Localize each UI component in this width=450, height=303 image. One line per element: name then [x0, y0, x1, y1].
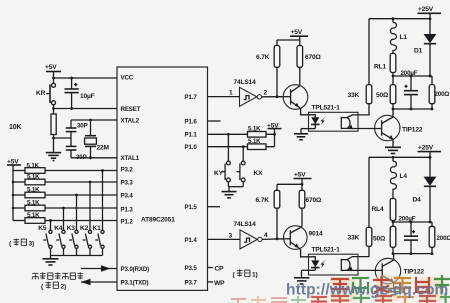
+5V supply (reset circuit) [45, 64, 61, 78]
wire: P1.1 net [208, 133, 275, 135]
svg-text:4: 4 [264, 232, 268, 239]
wire: oscillator ground link [54, 137, 72, 139]
svg-text:P1.0: P1.0 [185, 144, 198, 151]
MCU U1 AT89C2051 [117, 67, 208, 290]
wire: P1.0 net [208, 146, 275, 148]
wire: output node line A [393, 75, 432, 77]
optocoupler U2 TPL521-1 (channel A) [309, 105, 359, 132]
resistor 6.7K (channel A) [256, 40, 280, 97]
svg-text:+25V: +25V [418, 6, 434, 13]
wire: K2 drop [89, 181, 92, 231]
svg-text:200µF: 200µF [401, 70, 418, 77]
svg-text:RESET: RESET [121, 106, 141, 113]
svg-text:50Ω: 50Ω [373, 236, 386, 243]
wire: inverter out to base B [262, 238, 284, 241]
wire: collector rail B [392, 252, 434, 255]
crystal Y1 22M [85, 120, 110, 158]
resistor 33K (channel A) [348, 19, 372, 104]
inductor L1 [390, 19, 407, 54]
switch K3 [67, 225, 78, 256]
node: 6.7K base junction B [276, 237, 279, 240]
switch K5 [38, 225, 52, 256]
ground (TIP122 B emitter) [386, 289, 402, 295]
+5V supply (channel A driver) [277, 29, 308, 40]
node: L1 rail tap [392, 17, 395, 20]
node: L4 rail tap [392, 156, 395, 159]
resistor R-K1 5.1K [13, 162, 117, 173]
svg-text:+25V: +25V [418, 145, 434, 152]
svg-text:KY: KY [214, 170, 224, 177]
svg-text:200Ω: 200Ω [435, 91, 450, 98]
resistor R-K5 5.1K [13, 212, 117, 223]
svg-text:200µF: 200µF [399, 215, 416, 222]
watermark colored glyphs row 2 (clipped at bottom) [232, 294, 450, 303]
svg-text:30P: 30P [77, 123, 88, 130]
svg-text:3): 3) [29, 241, 35, 248]
svg-text:6.7K: 6.7K [256, 54, 270, 61]
wire: 33K to opto collector A [358, 104, 369, 115]
wire: pull-up rail [12, 171, 14, 221]
svg-text:200Ω: 200Ω [437, 235, 450, 242]
svg-text:P1.2: P1.2 [121, 218, 134, 225]
+25V supply (channel A) [418, 6, 442, 19]
resistor 5.1K (P1.1 pull-up) [248, 126, 267, 138]
opto phototransistor B [341, 257, 358, 272]
resistor 10K [9, 109, 56, 139]
wire: XTAL1 line [71, 157, 117, 159]
svg-text:+5V: +5V [45, 64, 57, 71]
svg-text:5.1K: 5.1K [248, 126, 261, 133]
svg-text:P3.3: P3.3 [121, 179, 134, 186]
+25V supply (channel B) [418, 145, 442, 158]
svg-text:P1.3: P1.3 [121, 206, 134, 213]
wire: Q1 emitter to opto LED [299, 107, 309, 115]
label: host control signal [32, 272, 83, 279]
watermark colored glyphs row 1 [332, 276, 449, 292]
node: capacitor top tap [70, 77, 73, 80]
svg-text:5.1K: 5.1K [27, 200, 40, 207]
svg-text:5.1K: 5.1K [27, 187, 40, 194]
wire: +25V rail B [369, 156, 430, 158]
+5V supply (channel B driver) [277, 172, 312, 186]
resistor RL1 [374, 53, 396, 76]
svg-text:D1: D1 [414, 48, 423, 55]
svg-text:WP: WP [214, 280, 225, 287]
wire: P1.7 to inverter [208, 96, 240, 98]
transistor Q2 9014 [284, 226, 324, 250]
watermark background patches [330, 275, 444, 301]
switch K1 [93, 225, 105, 256]
svg-text:http://www.gz-dq.com: http://www.gz-dq.com [286, 282, 448, 299]
resistor R-K4 5.1K [12, 200, 117, 211]
svg-text:9014: 9014 [309, 230, 324, 237]
inductor L4 [390, 157, 407, 191]
wire: P3.7 stub [208, 281, 214, 283]
wire: opto emitter to TIP122 base B [358, 269, 375, 271]
svg-text:22M: 22M [97, 145, 110, 152]
svg-text:10µF: 10µF [80, 93, 95, 100]
node: 10K bottom junction [52, 137, 55, 140]
opto LED B [302, 257, 320, 271]
svg-text:K1: K1 [93, 225, 102, 232]
svg-text:D4: D4 [413, 197, 422, 204]
wire: RXD signal with arrow [81, 265, 117, 272]
resistor 5.1K (P1.0 pull-up) [248, 138, 267, 150]
node: RL1 bottom junction [392, 75, 395, 78]
ground (TIP122 A emitter) [385, 147, 401, 153]
svg-text:33K: 33K [348, 235, 360, 242]
svg-text:TIP122: TIP122 [402, 127, 423, 134]
svg-text:AT89C2051: AT89C2051 [141, 217, 175, 224]
svg-text:1): 1) [252, 272, 258, 279]
svg-text:K2: K2 [80, 225, 89, 232]
svg-text:P1.5: P1.5 [185, 204, 198, 211]
svg-text:L4: L4 [400, 173, 408, 180]
node: VCC rail junction [52, 77, 55, 80]
+5V supply (KY/KX pull-ups) [267, 122, 282, 146]
wire: K4 drop [62, 207, 65, 231]
node: KR bottom junction [52, 107, 55, 110]
svg-text:5.1K: 5.1K [248, 138, 261, 145]
label (mode 3) [9, 239, 34, 248]
wire: P3.5 stub [208, 267, 214, 269]
transistor TIP122 (channel B) [375, 254, 424, 289]
transistor Q1 (channel A driver) [283, 85, 308, 110]
svg-text:670Ω: 670Ω [306, 197, 323, 204]
svg-text:P3.5: P3.5 [185, 265, 198, 272]
svg-text:33K: 33K [348, 92, 360, 99]
capacitor C1 10uF [65, 78, 95, 109]
svg-text:5.1K: 5.1K [27, 174, 40, 181]
capacitor C3 30P [66, 138, 87, 161]
svg-text:K3: K3 [67, 225, 76, 232]
resistor RL4 [372, 191, 396, 222]
svg-text:50Ω: 50Ω [376, 92, 389, 99]
resistor 33K (channel B) [348, 157, 372, 246]
resistor 50R (channel A) [376, 76, 396, 109]
wire: +25V rail A [369, 18, 430, 20]
inverter U3B 74LS14 [234, 221, 263, 249]
svg-text:P3.7: P3.7 [185, 279, 198, 286]
svg-text:CP: CP [215, 265, 225, 272]
ground (opto LED B) [294, 270, 310, 284]
wire: RESET line [54, 108, 118, 110]
wire: opto emitter to TIP122 base A [358, 128, 375, 130]
svg-text:2): 2) [61, 284, 67, 291]
ground (KY/KX) [222, 187, 237, 198]
svg-text:P3.0(RXD): P3.0(RXD) [121, 266, 150, 273]
inverter U3A 74LS14 [234, 79, 262, 106]
node: crystal top tap [89, 119, 92, 122]
wire: P1.5 stub [208, 206, 221, 208]
svg-text:RL4: RL4 [372, 206, 384, 213]
svg-text:+5V: +5V [294, 172, 306, 179]
+5V supply (key matrix pull-ups) [7, 159, 21, 171]
svg-text:5.1K: 5.1K [27, 212, 40, 219]
svg-text:3: 3 [229, 232, 233, 239]
capacitor 200uF (channel A) [401, 70, 419, 109]
resistor 670R (channel A) [297, 40, 322, 86]
opto photon arrow B [321, 259, 326, 268]
resistor 200R (channel A) [429, 75, 450, 109]
svg-text:KR: KR [36, 90, 46, 97]
wire: K3 drop [75, 194, 78, 231]
svg-text:TPL521-1: TPL521-1 [312, 247, 341, 254]
wire: K5 drop [49, 219, 52, 230]
resistor R-K3 5.1K [12, 187, 117, 198]
transistor TIP122 (channel A) [375, 109, 423, 147]
svg-text:5.1K: 5.1K [27, 162, 40, 169]
optocoupler U4 TPL521-1 (channel B) [309, 247, 359, 275]
ground (opto LED A) [294, 129, 308, 140]
wire: XTAL2 line [71, 119, 117, 121]
switch KY [214, 133, 230, 187]
svg-text:VCC: VCC [121, 74, 134, 81]
svg-text:XTAL2: XTAL2 [121, 117, 140, 124]
svg-text:L1: L1 [400, 34, 408, 41]
wire: P1.4 to inverter [208, 238, 241, 240]
wire: K1 drop [101, 169, 104, 230]
diode D1 [414, 17, 436, 76]
svg-text:74LS14: 74LS14 [234, 79, 257, 86]
label (mode 2) [41, 282, 66, 291]
ground (reset divider) [46, 138, 61, 161]
wire: TXD signal with arrow [81, 279, 117, 286]
resistor 6.7K (channel B) [256, 184, 280, 239]
wire: P1.6 stub [208, 120, 221, 122]
svg-text:TPL521-1: TPL521-1 [312, 105, 341, 112]
wire: collector rail A [392, 108, 434, 111]
svg-text:P1.4: P1.4 [185, 237, 198, 244]
node: RL4 bottom junction [392, 221, 395, 224]
capacitor 200uF (channel B) [399, 215, 419, 253]
svg-text:10K: 10K [9, 124, 21, 131]
wire: switch common rail [51, 255, 103, 257]
label (mode 1) [233, 270, 258, 279]
resistor 200R (channel B) [429, 221, 450, 254]
svg-text:XTAL1: XTAL1 [121, 155, 140, 162]
wire: inverter out to base [262, 96, 284, 98]
capacitor C2 30P [66, 120, 88, 138]
svg-text:TIP122: TIP122 [404, 268, 425, 275]
resistor 50R (channel B) [373, 222, 396, 254]
wire: 33K to opto collector B [358, 246, 369, 256]
opto photon arrow A [321, 116, 326, 125]
opto phototransistor A [341, 115, 358, 129]
switch K2 [80, 225, 92, 256]
svg-text:KX: KX [254, 170, 264, 177]
svg-text:74LS14: 74LS14 [234, 221, 257, 228]
svg-text:P3.1(TXD): P3.1(TXD) [121, 279, 149, 286]
svg-text:P3.4: P3.4 [121, 192, 134, 199]
wire: +5V to VCC pin [54, 77, 118, 79]
svg-text:+5V: +5V [291, 29, 303, 36]
svg-text:P1.7: P1.7 [185, 94, 198, 101]
wire: output node line B [393, 221, 432, 223]
switch KX [237, 145, 264, 186]
node: capacitor bottom tap [70, 107, 73, 110]
svg-text:2: 2 [264, 90, 268, 97]
node: 6.7K base junction [276, 95, 279, 98]
svg-text:1: 1 [229, 90, 233, 97]
switch KR (reset button) [36, 78, 56, 109]
svg-text:RL1: RL1 [374, 64, 386, 71]
svg-text:K5: K5 [38, 225, 47, 232]
switch K4 [54, 225, 65, 256]
ground (key matrix) [43, 256, 59, 266]
resistor R-K2 5.1K [12, 174, 117, 185]
node: crystal bottom tap [89, 156, 92, 159]
resistor 670R (channel B) [299, 184, 322, 226]
svg-text:P1.1: P1.1 [185, 132, 198, 139]
svg-text:6.7K: 6.7K [256, 197, 270, 204]
svg-text:P3.2: P3.2 [121, 166, 134, 173]
svg-text:P1.6: P1.6 [185, 118, 198, 125]
svg-text:670Ω: 670Ω [305, 54, 322, 61]
wire: Q2 emitter to opto LED B [299, 248, 309, 257]
wire: KY-KX common [228, 186, 243, 188]
opto LED A [301, 115, 320, 129]
diode D4 [413, 156, 437, 222]
